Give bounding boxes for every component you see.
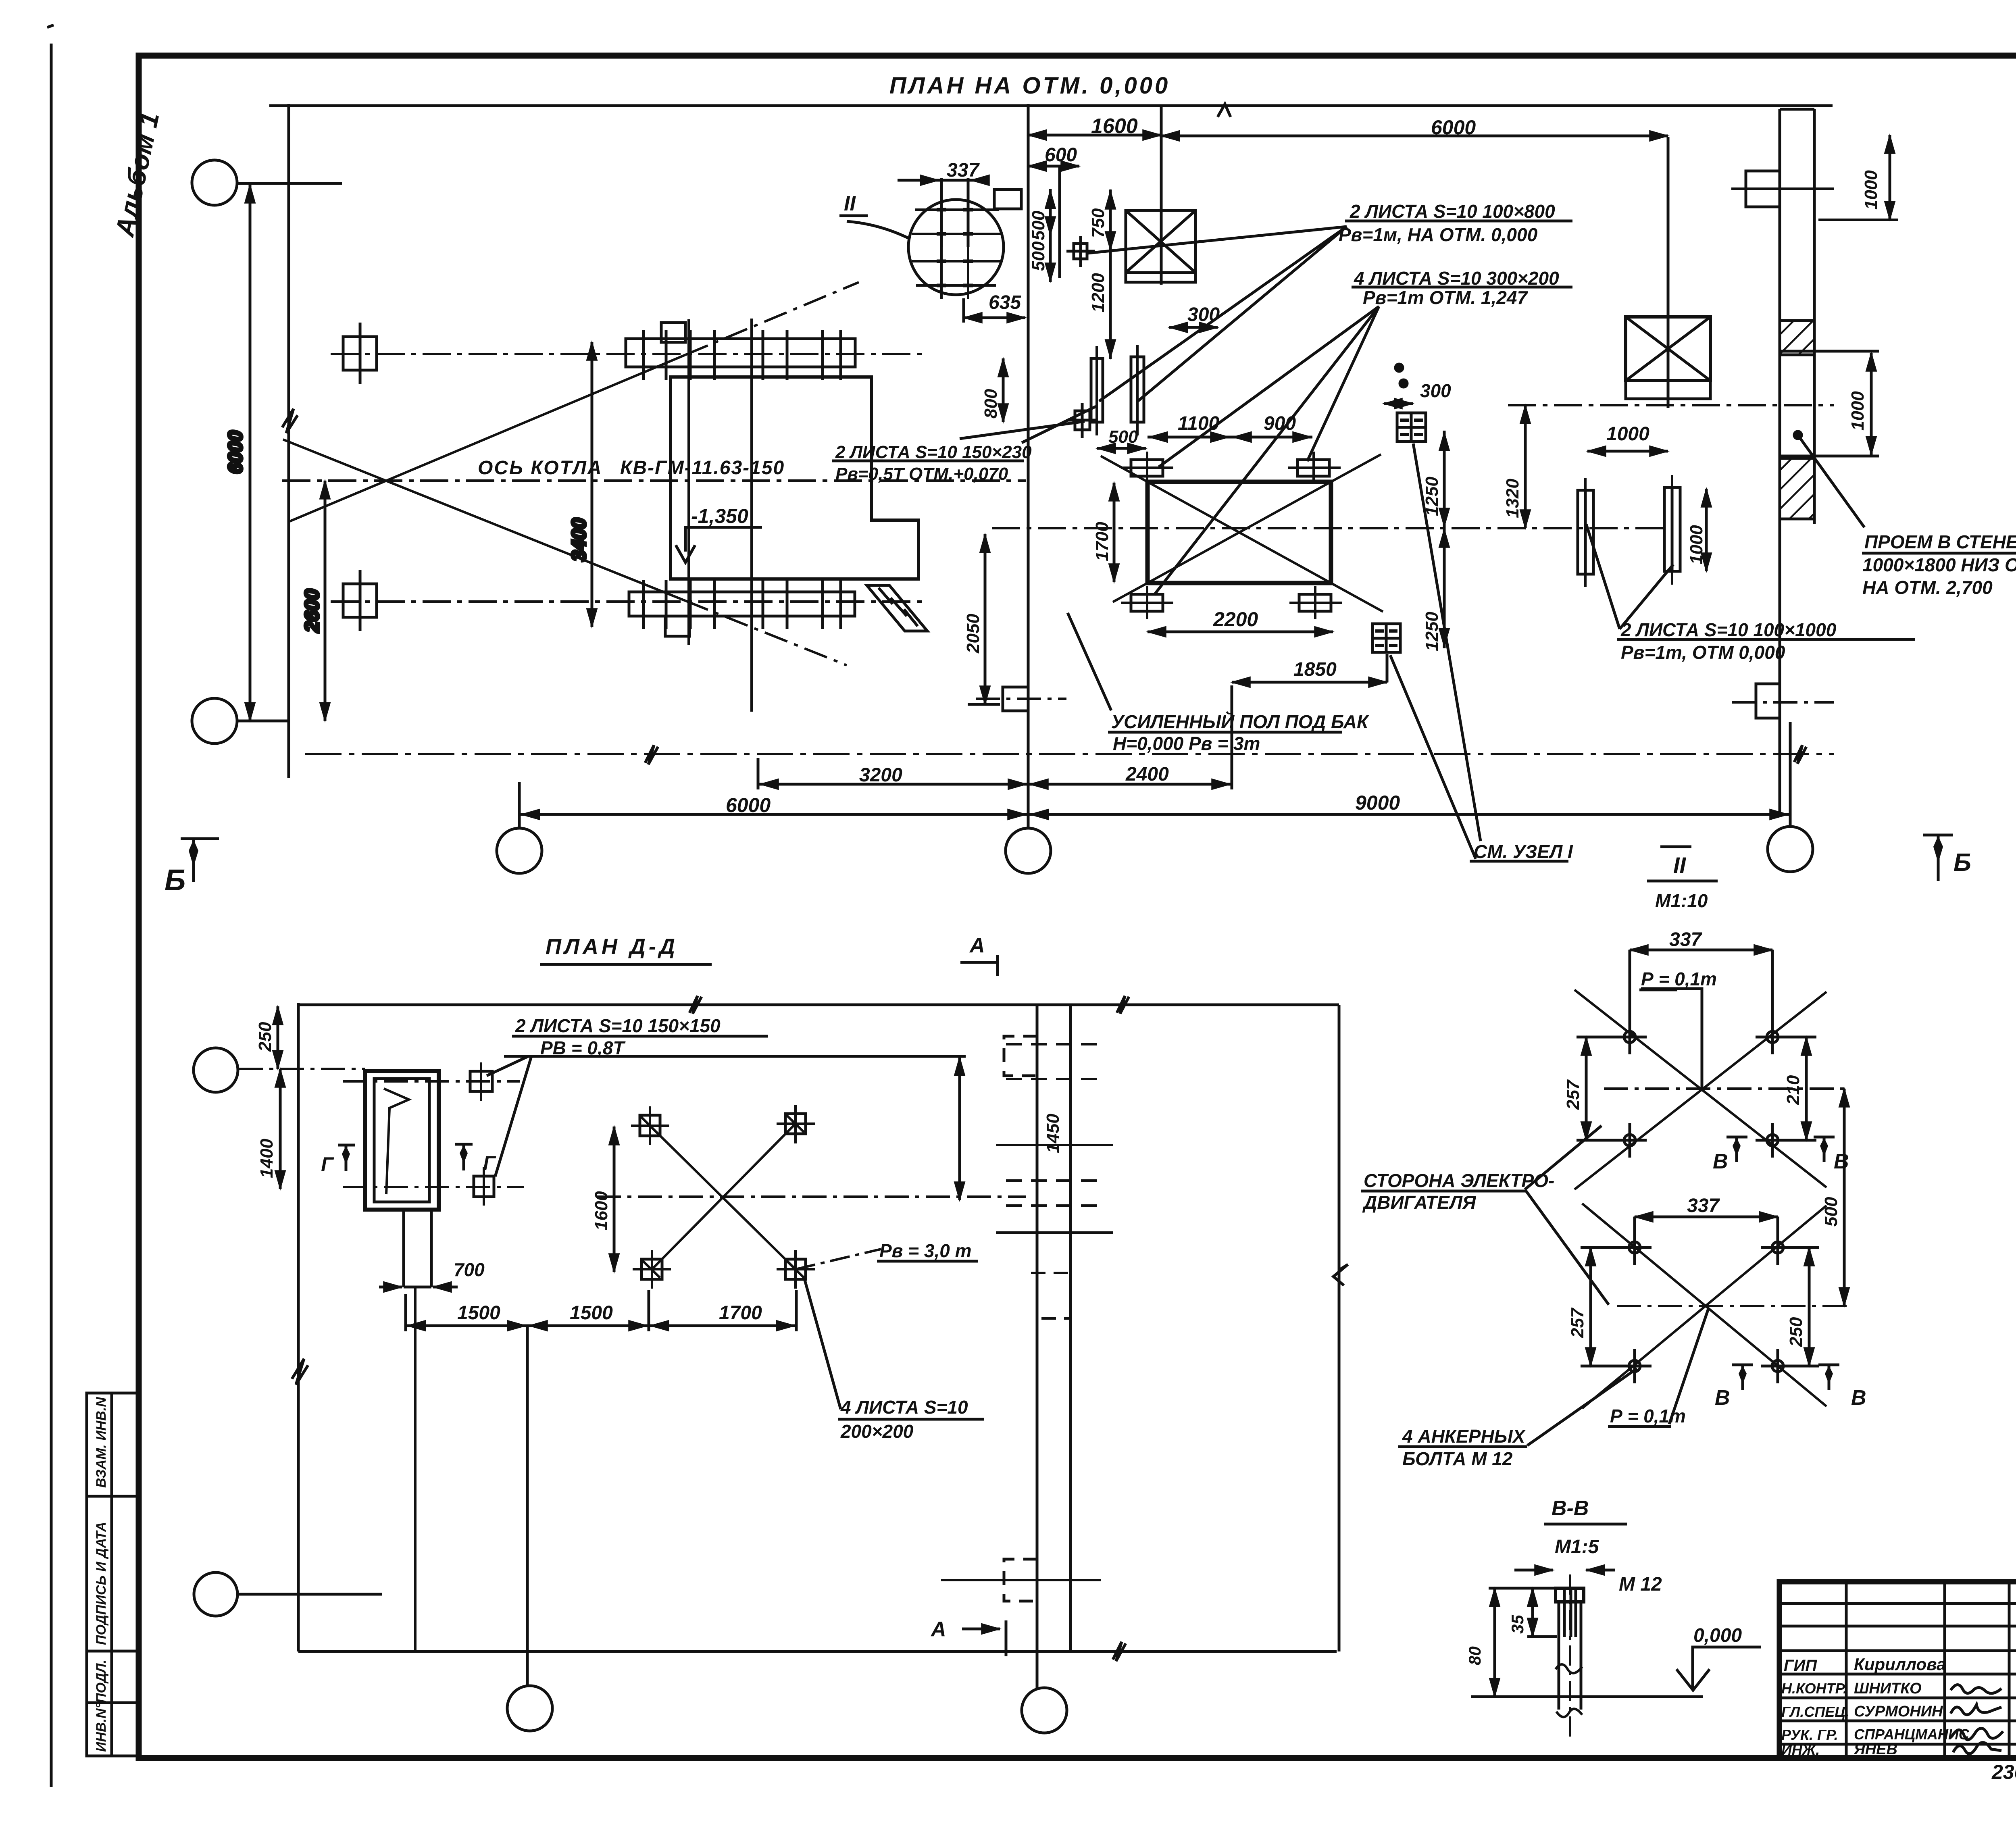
svg-text:257: 257 — [1563, 1079, 1583, 1110]
X-box diagonals — [1126, 210, 1195, 273]
dashed box bottom — [1004, 1559, 1037, 1601]
leader usilenny pol — [1068, 613, 1111, 710]
elevation arrowhead — [676, 545, 695, 562]
svg-text:1200: 1200 — [1088, 273, 1108, 312]
ext lines dims — [404, 1294, 407, 1331]
svg-text:Рв=1т ОТМ. 1,247: Рв=1т ОТМ. 1,247 — [1363, 287, 1528, 308]
svg-text:2 ЛИСТА S=10 150×230: 2 ЛИСТА S=10 150×230 — [835, 442, 1032, 462]
dim 257 upper exts — [1577, 1036, 1617, 1039]
B mark up-left — [1727, 1136, 1747, 1139]
D-D top wall line — [298, 1004, 1339, 1006]
svg-text:1500: 1500 — [570, 1302, 613, 1324]
wall double line a — [1036, 1005, 1039, 1689]
dim 210 — [1805, 1037, 1808, 1140]
svg-text:4 ЛИСТА S=10: 4 ЛИСТА S=10 — [840, 1397, 968, 1418]
dim 250 lower — [1808, 1247, 1811, 1366]
svg-text:ВЗАМ. ИНВ.N: ВЗАМ. ИНВ.N — [94, 1397, 109, 1488]
B mark up-right — [1814, 1136, 1835, 1139]
plate B — [1131, 357, 1144, 422]
dim 257 lower — [1589, 1247, 1592, 1366]
dim 2200 — [1148, 631, 1333, 633]
column square bottom-left — [343, 584, 377, 617]
svg-text:В-В: В-В — [1552, 1497, 1589, 1520]
ankernyh leader — [1527, 1368, 1637, 1445]
dim 35 ext — [1527, 1635, 1557, 1638]
pad diagonal 1 — [650, 1126, 796, 1269]
left edge break — [292, 1359, 308, 1385]
dim 635 line — [964, 317, 1025, 319]
wall double line b — [1069, 1005, 1072, 1651]
dim 1250 arrows — [1443, 432, 1446, 448]
svg-text:ГИП: ГИП — [1784, 1657, 1817, 1674]
uzel II bolt dots — [937, 210, 973, 285]
title block outer — [1779, 1582, 2016, 1758]
dim 1320 — [1524, 405, 1527, 528]
B axis break 2 — [1794, 745, 1806, 764]
uzel II grid hlines — [915, 208, 999, 211]
svg-text:Рв=1м, НА ОТМ. 0,000: Рв=1м, НА ОТМ. 0,000 — [1339, 224, 1538, 245]
dim 500-500 arrows — [1049, 190, 1052, 204]
dim 750-1200 line — [1109, 190, 1112, 359]
axis circle 250 — [194, 1048, 238, 1092]
tank rect — [1148, 482, 1331, 583]
circle leader line — [237, 182, 342, 185]
svg-text:2 ЛИСТА S=10 100×800: 2 ЛИСТА S=10 100×800 — [1350, 201, 1555, 222]
plate C centerline — [1584, 478, 1587, 587]
dim 700 — [404, 1286, 431, 1289]
dim 337 upper — [1630, 949, 1772, 952]
0.000 mark bent line — [1693, 1647, 1761, 1689]
svg-text:СУРМОНИН: СУРМОНИН — [1854, 1703, 1943, 1720]
underline P01 lower — [1608, 1425, 1671, 1428]
svg-text:Н.КОНТР.: Н.КОНТР. — [1781, 1680, 1847, 1697]
dim 337 upper exts — [1629, 950, 1631, 1026]
svg-text:2050: 2050 — [963, 614, 983, 654]
underline proem — [1862, 552, 2016, 555]
svg-text:Б: Б — [165, 863, 185, 897]
pad diagonal 2 — [652, 1124, 796, 1269]
underline 2lista150x230 — [832, 460, 1024, 462]
small box cross — [1079, 236, 1082, 267]
dim 300 line — [1169, 326, 1218, 329]
plate B centerline — [1136, 345, 1139, 435]
svg-text:9000: 9000 — [1355, 791, 1400, 814]
svg-text:2200: 2200 — [1213, 608, 1258, 631]
svg-text:1000: 1000 — [1687, 525, 1706, 564]
line Pb08 long — [504, 1055, 966, 1058]
pad grid BR — [785, 1259, 806, 1279]
uzel II circle — [908, 200, 1004, 295]
leader 2lista100x1000 b — [1620, 564, 1673, 629]
boiler X diagonal 2 ext — [685, 601, 847, 665]
pad grid TL — [640, 1115, 660, 1136]
svg-text:ИНВ.N°ПОДЛ.: ИНВ.N°ПОДЛ. — [94, 1660, 109, 1752]
svg-text:300: 300 — [1187, 304, 1220, 325]
boiler row axis bottom dash-dot — [331, 600, 923, 603]
dim 250 exts — [1790, 1246, 1819, 1249]
svg-text:ДВИГАТЕЛЯ: ДВИГАТЕЛЯ — [1362, 1192, 1477, 1213]
svg-text:-1,350: -1,350 — [691, 505, 748, 527]
B axis dashdot long — [305, 753, 1834, 755]
svg-text:2 ЛИСТА S=10 100×1000: 2 ЛИСТА S=10 100×1000 — [1620, 619, 1837, 640]
plate A — [1091, 358, 1103, 422]
dim 3400 line — [591, 342, 594, 627]
tank pad BL — [1131, 594, 1163, 611]
svg-text:Г: Г — [321, 1153, 334, 1176]
uzel II label leader — [847, 221, 910, 239]
bottom circle 1 dd — [507, 1686, 552, 1731]
main axis B vertical — [1027, 104, 1030, 828]
svg-text:337: 337 — [1687, 1195, 1720, 1216]
bottom line break — [1113, 1642, 1126, 1661]
dim 337 arrows — [907, 179, 939, 182]
svg-text:1500: 1500 — [457, 1302, 500, 1324]
dim 1450 dd — [958, 1057, 961, 1200]
dim 257 upper — [1585, 1037, 1588, 1140]
svg-text:Кириллова: Кириллова — [1854, 1655, 1946, 1674]
P=0.1t upper leader — [1641, 989, 1702, 1089]
lower pattern axis dashdot — [1617, 1305, 1851, 1307]
top line break — [689, 996, 702, 1014]
tank D-D inner rect — [374, 1079, 429, 1202]
M12 arrows — [1514, 1569, 1553, 1572]
uzel II label underline — [839, 214, 868, 217]
svg-text:900: 900 — [1264, 413, 1296, 434]
svg-text:ИНЖ.: ИНЖ. — [1781, 1741, 1820, 1758]
tank pad BR — [1299, 594, 1331, 611]
svg-text:В: В — [1713, 1150, 1728, 1173]
dim 80 — [1493, 1588, 1496, 1697]
underline 2lista150 — [512, 1035, 768, 1038]
svg-text:635: 635 — [989, 292, 1021, 313]
svg-text:2600: 2600 — [302, 589, 323, 633]
svg-text:6000: 6000 — [1431, 116, 1476, 139]
dim 210 exts — [1786, 1036, 1816, 1039]
dim top ext — [1489, 1587, 1556, 1590]
svg-text:750: 750 — [1088, 208, 1108, 238]
tank diagonal 2 — [1148, 482, 1331, 583]
underline 4lista — [838, 1418, 984, 1421]
dim 500-500 line — [1049, 189, 1052, 282]
wall hatch band 1 — [1780, 321, 1814, 355]
plan top edge — [269, 104, 1833, 107]
opening dot — [1794, 431, 1801, 439]
leaders 4lista 300x200 — [1159, 306, 1379, 467]
underline 2lista100x800 — [1345, 220, 1572, 223]
dim row 1500-1500-1700 — [406, 1324, 796, 1327]
axis dashdot 250 — [239, 1068, 365, 1070]
dim 2600 line — [324, 481, 327, 721]
square 150 lower — [474, 1176, 494, 1197]
tank diagonal 2 ext — [1331, 454, 1381, 482]
leader 4lista — [805, 1280, 841, 1409]
pilaster bottom — [1756, 684, 1780, 718]
plate C — [1578, 490, 1593, 574]
bolt centerline — [1569, 1574, 1571, 1742]
dim 800 line — [1002, 358, 1005, 422]
dim 1000 top wall — [1889, 135, 1891, 220]
D-D right edge — [1338, 1005, 1341, 1651]
dim 1000 top wall ext — [1818, 219, 1898, 221]
svg-text:ПОДПИСЬ И ДАТА: ПОДПИСЬ И ДАТА — [94, 1522, 109, 1645]
bolt shaft right — [1580, 1602, 1583, 1710]
dim 1850 — [1232, 681, 1387, 684]
D-D right edge zigzag — [1333, 1264, 1348, 1285]
dim 1000 wall — [1870, 353, 1873, 455]
svg-text:Б: Б — [1954, 849, 1971, 877]
column square vline — [359, 323, 362, 384]
boiler center axis 1 — [687, 319, 690, 645]
dim 35 — [1531, 1588, 1534, 1637]
svg-text:500: 500 — [1029, 210, 1048, 240]
underline 2lista100x1000 — [1617, 638, 1915, 641]
D-D bottom line — [298, 1650, 1337, 1653]
svg-text:257: 257 — [1568, 1307, 1587, 1338]
dim 600 line — [1028, 165, 1079, 168]
axis circle mid-left — [192, 698, 237, 743]
B axis break 1 — [645, 745, 658, 764]
svg-text:500: 500 — [1029, 241, 1048, 271]
svg-text:А: А — [969, 934, 985, 957]
bolt shaft left — [1558, 1602, 1560, 1710]
plate bar ticks — [642, 330, 645, 380]
tb col lines — [1845, 1582, 1848, 1758]
tb sig sprantsmanis — [1951, 1728, 2003, 1740]
svg-text:РВ = 0,8Т: РВ = 0,8Т — [540, 1037, 626, 1058]
svg-text:Рв=0,5Т ОТМ.+0,070: Рв=0,5Т ОТМ.+0,070 — [835, 464, 1008, 484]
svg-text:Р = 0,1т: Р = 0,1т — [1610, 1406, 1686, 1427]
storona leaders — [1525, 1126, 1602, 1189]
upper pattern diagonal 2 — [1574, 992, 1826, 1189]
svg-text:РУК. ГР.: РУК. ГР. — [1781, 1726, 1838, 1743]
dashdot lower long — [343, 1186, 524, 1188]
upper pattern diagonal 1 — [1574, 990, 1826, 1187]
leader 2lista100x1000 a — [1586, 524, 1620, 629]
boiler X diagonal 2 — [283, 439, 685, 601]
svg-text:1600: 1600 — [1091, 115, 1138, 138]
ext 3200 left — [757, 758, 760, 789]
plate D centerline — [1671, 475, 1673, 585]
sheet edge left — [50, 44, 53, 1787]
plate A centerline — [1095, 346, 1098, 435]
dashdot upper through square — [343, 1080, 520, 1083]
title squiggle — [1218, 104, 1231, 117]
D-D left edge — [297, 1003, 300, 1651]
upper pattern axis dashdot — [1604, 1087, 1849, 1090]
svg-text:1320: 1320 — [1503, 479, 1522, 518]
svg-text:1000×1800 НИЗ ОТВ.: 1000×1800 НИЗ ОТВ. — [1862, 554, 2016, 575]
axis A left vertical — [287, 104, 290, 778]
dim row 6000-9000 — [519, 813, 1790, 816]
boiler row axis top dash-dot — [331, 353, 923, 355]
svg-text:Г: Г — [483, 1152, 496, 1175]
svg-text:В: В — [1834, 1150, 1849, 1173]
sheet corner mark top-left — [47, 25, 54, 27]
sm uzel leaders — [1390, 655, 1476, 859]
svg-text:ПЛАН НА ОТМ. 0,000: ПЛАН НА ОТМ. 0,000 — [889, 73, 1170, 99]
tb sig yanev — [1953, 1743, 2001, 1754]
underline usilenny pol — [1108, 731, 1342, 734]
ext 2400 right / tank axis — [1231, 685, 1233, 789]
floor line — [1471, 1695, 1703, 1698]
dashed box top — [1004, 1036, 1037, 1076]
dim 337 lower exts — [1633, 1217, 1636, 1237]
pad grid TR — [785, 1114, 806, 1134]
square 150 upper — [470, 1071, 492, 1091]
svg-text:1850: 1850 — [1293, 659, 1337, 680]
dim row 3200-2400 — [758, 783, 1232, 786]
svg-text:СТОРОНА ЭЛЕКТРО-: СТОРОНА ЭЛЕКТРО- — [1364, 1170, 1554, 1191]
svg-text:1000: 1000 — [1861, 170, 1881, 210]
left margin table — [87, 1393, 139, 1756]
axis x4137 vertical — [1667, 137, 1670, 408]
dim 337 exts — [940, 178, 943, 247]
svg-text:1100: 1100 — [1178, 413, 1220, 434]
plate bar small box low — [665, 616, 689, 636]
bottom axis circle 3 — [1768, 827, 1813, 872]
svg-text:1000: 1000 — [1848, 391, 1868, 431]
tank D-D legs — [402, 1210, 405, 1287]
X-box right diagonals — [1626, 317, 1710, 381]
X-box lip — [1126, 273, 1195, 282]
pilaster bottom axis — [1732, 701, 1834, 704]
dim 1600 dd — [613, 1127, 616, 1272]
lower bolts — [1618, 1231, 1795, 1383]
svg-text:2 ЛИСТА S=10 150×150: 2 ЛИСТА S=10 150×150 — [515, 1015, 721, 1036]
tank axis dashdot — [992, 527, 1669, 529]
svg-text:800: 800 — [981, 389, 1001, 419]
left circle 3 dd — [194, 1572, 237, 1616]
boiler X diagonal 1 ext — [685, 282, 859, 355]
bolt group square upper — [1397, 413, 1426, 441]
II bottom overline — [1660, 845, 1691, 848]
dim 300 small — [1384, 402, 1413, 405]
ramp hatch lines — [879, 588, 893, 604]
svg-text:35: 35 — [1508, 1615, 1527, 1634]
dim 1100-900 line — [1148, 436, 1312, 439]
dim 1700 — [1113, 483, 1116, 582]
lower pattern diagonal 1 — [1582, 1204, 1826, 1406]
svg-text:КВ-ГМ-11.63-150: КВ-ГМ-11.63-150 — [620, 457, 785, 479]
wall right vertical 2 — [1813, 109, 1816, 524]
boiler axis dash-dot — [282, 479, 1026, 482]
dim 337 uzel line — [898, 179, 988, 182]
svg-text:300: 300 — [1420, 380, 1451, 401]
bolt break squiggle mid — [1556, 1664, 1582, 1673]
dim 337 lower — [1635, 1216, 1778, 1218]
bolt nut — [1556, 1588, 1584, 1602]
svg-text:А: А — [930, 1618, 946, 1641]
tank diagonal 1 — [1148, 482, 1331, 583]
svg-text:БОЛТА М 12: БОЛТА М 12 — [1402, 1448, 1513, 1469]
boiler top plate bar — [626, 339, 855, 367]
wall right vertical 1 — [1779, 109, 1781, 815]
ankernyh underline — [1398, 1445, 1527, 1448]
dashdot through rect — [976, 698, 1066, 700]
axis x2628 short — [1058, 166, 1061, 278]
svg-text:80: 80 — [1465, 1646, 1484, 1665]
svg-text:6000: 6000 — [726, 794, 771, 816]
pilaster axis — [1731, 187, 1834, 190]
svg-text:1250: 1250 — [1422, 612, 1442, 651]
pad grid BL — [641, 1259, 662, 1279]
ramp hatch bar — [867, 585, 927, 631]
svg-text:II: II — [844, 192, 856, 215]
dim 1000 h line — [1587, 450, 1668, 453]
svg-text:ШНИТКО: ШНИТКО — [1854, 1680, 1922, 1697]
circle 3 leader — [238, 1593, 382, 1596]
X-box right — [1626, 317, 1710, 381]
svg-text:200×200: 200×200 — [840, 1421, 914, 1442]
svg-text:М1:10: М1:10 — [1655, 890, 1708, 911]
top line break 2 — [1117, 996, 1129, 1014]
hatch band1 edge lines — [1780, 350, 1879, 353]
svg-text:6000: 6000 — [225, 431, 246, 474]
wall hatch band 2 — [1780, 458, 1814, 519]
B-B fraction bar — [1544, 1523, 1627, 1526]
svg-text:1000: 1000 — [1606, 423, 1649, 445]
B mark left — [181, 837, 219, 840]
opening bottom ext — [1780, 455, 1879, 458]
tb sig surmonin — [1951, 1705, 2001, 1715]
svg-text:В: В — [1851, 1386, 1866, 1410]
svg-text:3200: 3200 — [859, 764, 902, 786]
tank D-D outer rect — [365, 1071, 439, 1210]
svg-text:ОСЬ КОТЛА: ОСЬ КОТЛА — [478, 457, 603, 479]
svg-text:250: 250 — [1786, 1317, 1806, 1347]
A mark top — [960, 961, 998, 964]
B mark low-right — [1818, 1364, 1839, 1366]
B mark low-left — [1732, 1364, 1753, 1366]
svg-text:210: 210 — [1783, 1075, 1803, 1105]
bottom axis circle 1 — [497, 828, 542, 873]
dim 1600 line — [1028, 134, 1161, 137]
dim 500 — [1843, 1089, 1846, 1306]
svg-text:Р = 0,1т: Р = 0,1т — [1641, 968, 1717, 989]
boiler bottom plate bar — [629, 592, 855, 616]
A mark bottom arrow — [962, 1628, 1000, 1631]
svg-text:Рв = 3,0 т: Рв = 3,0 т — [879, 1240, 972, 1261]
dim 2050 ext — [968, 703, 1000, 706]
small rect axis B — [1003, 687, 1028, 711]
dim 250 — [277, 1006, 279, 1069]
leader 2lista 150x230 b — [960, 421, 1085, 439]
P=0.1t lower leader — [1669, 1308, 1709, 1424]
dim 6000 left line — [249, 185, 252, 721]
plate D — [1664, 487, 1680, 571]
svg-text:ЯНЕВ: ЯНЕВ — [1854, 1741, 1897, 1758]
svg-text:4 ЛИСТА S=10 300×200: 4 ЛИСТА S=10 300×200 — [1354, 268, 1559, 289]
plate C inner — [1584, 490, 1587, 574]
X-box right lip — [1626, 381, 1710, 399]
axis stub 1 — [518, 782, 521, 828]
G mark left tick — [338, 1144, 355, 1147]
column square top-left — [343, 337, 377, 370]
bolt square cross — [1081, 403, 1084, 438]
svg-text:500: 500 — [1108, 427, 1138, 447]
boiler X diagonal 1 — [289, 355, 685, 522]
dim 750-1200 arrows — [1109, 191, 1112, 206]
svg-text:337: 337 — [1669, 929, 1702, 950]
dim 635 ext — [962, 298, 965, 323]
small rect on axis top — [994, 190, 1021, 209]
dots — [1395, 364, 1403, 371]
leader 2lista 150x230 — [1022, 406, 1096, 443]
svg-text:600: 600 — [1045, 144, 1077, 166]
bolt bottom squiggle — [1556, 1709, 1582, 1717]
dim 2050 — [984, 534, 987, 704]
svg-text:ГЛ.СПЕЦ.: ГЛ.СПЕЦ. — [1781, 1703, 1849, 1720]
